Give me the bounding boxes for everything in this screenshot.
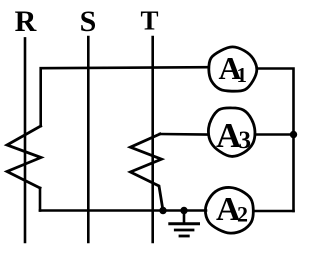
resistor R2 (middle zigzag): [130, 134, 162, 208]
ground: [170, 211, 199, 237]
junction node: resistor R2 to bottom wire: [159, 207, 166, 214]
svg-text:S: S: [80, 5, 97, 38]
ammeter A3: [208, 108, 255, 157]
svg-text:2: 2: [237, 202, 248, 227]
ammeter A2: [205, 187, 253, 233]
junction node: ground tap on bottom wire: [180, 207, 187, 214]
wire: phase line R: [24, 38, 27, 242]
svg-text:T: T: [140, 6, 158, 36]
wire: A3 left lead: [160, 133, 208, 136]
svg-text:1: 1: [237, 63, 248, 87]
wire: A1 to top-right corner and right vertical: [257, 69, 293, 212]
svg-text:R: R: [15, 5, 37, 38]
wire: phase line T: [151, 37, 154, 242]
wire: bottom horizontal to ammeter A2: [40, 209, 206, 212]
wire: phase line S: [87, 37, 90, 242]
junction node: A3 branch on right vertical: [290, 131, 297, 138]
resistor R1 (left zigzag): [7, 126, 41, 188]
svg-text:3: 3: [239, 127, 252, 154]
ammeter A1: [209, 47, 257, 91]
wire: A2 right to bottom-right corner: [253, 210, 293, 213]
resistor R1 bottom lead: [39, 188, 42, 211]
wire: top horizontal to ammeter A1: [41, 67, 208, 126]
wire: A3 right to right vertical: [255, 133, 294, 136]
